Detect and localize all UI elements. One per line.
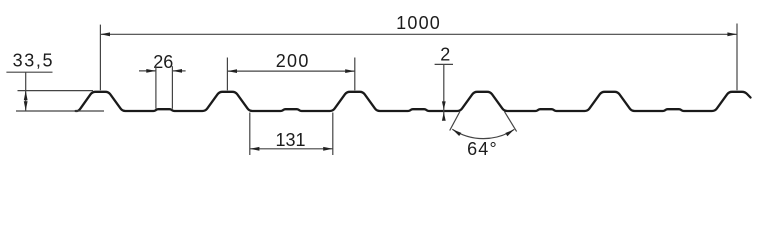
svg-text:200: 200 <box>276 51 310 71</box>
svg-text:33,5: 33,5 <box>13 51 54 71</box>
svg-text:131: 131 <box>275 130 305 150</box>
svg-text:64°: 64° <box>467 139 498 159</box>
svg-text:1000: 1000 <box>396 13 441 33</box>
svg-text:2: 2 <box>440 44 450 64</box>
